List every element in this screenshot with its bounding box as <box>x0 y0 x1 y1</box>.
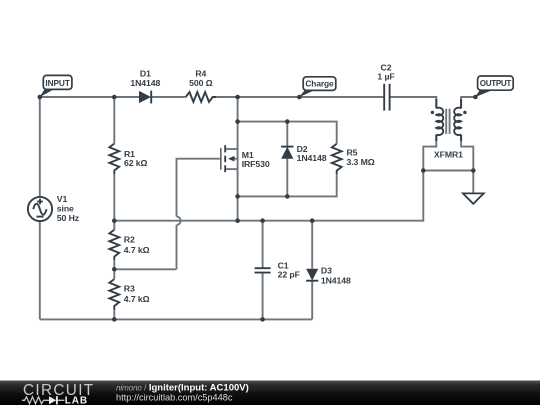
node junction source / D2 bottom rail <box>235 194 240 199</box>
wire: source vertical down to mid rail <box>237 149 239 221</box>
footer title line <box>116 383 249 394</box>
CircuitLab logo wordmark CIRCUIT <box>23 382 94 399</box>
wire: top rail from INPUT node to D1 <box>40 96 139 98</box>
node junction gate tap <box>112 267 117 272</box>
wire: transformer secondary top to OUTPUT node <box>461 97 475 108</box>
wire: C1 bottom lead <box>262 272 264 319</box>
svg-text:D3: D3 <box>321 266 332 276</box>
svg-text:3.3 MΩ: 3.3 MΩ <box>347 157 375 167</box>
svg-text:R2: R2 <box>124 235 135 245</box>
resistor R2 4.7 kOhm <box>109 230 149 261</box>
diode D2 1N4148 (vertical, pointing up) <box>281 144 327 163</box>
wire: C2 to transformer primary top <box>389 97 436 108</box>
resistor R5 3.3 MOhm <box>332 144 375 175</box>
node Charge <box>297 95 302 100</box>
wire: long mid rail y=220.7 to transformer <box>114 171 423 221</box>
svg-text:22 pF: 22 pF <box>278 270 300 280</box>
logo LAB text <box>65 396 88 405</box>
node junction xfmr tie left <box>421 168 426 173</box>
wire: drain stub <box>226 148 237 150</box>
node INPUT <box>38 95 43 100</box>
wire: transformer secondary bottom bracket <box>461 135 473 171</box>
flag Charge <box>299 77 336 97</box>
wire: V1 bottom to bottom rail <box>39 221 41 319</box>
wire: D2/R5 top rail <box>238 122 337 144</box>
diode D3 1N4148 (vertical, pointing down) <box>306 266 351 286</box>
wire: D2 bottom lead <box>286 159 288 197</box>
wire: R3 bottom to bottom rail <box>113 310 115 320</box>
wire: body stub <box>230 158 238 160</box>
ground <box>463 193 484 203</box>
capacitor C2 1 uF (vertical plates) <box>377 62 394 110</box>
node junction R3 bottom <box>112 317 117 322</box>
wire: R1 branch x=114.3 top <box>113 97 115 144</box>
svg-text:Charge: Charge <box>305 79 334 89</box>
svg-text:500 Ω: 500 Ω <box>189 78 213 88</box>
resistor R3 4.7 kOhm <box>109 279 149 310</box>
logo diode glyph <box>49 396 64 404</box>
svg-text:1 µF: 1 µF <box>377 72 394 82</box>
wire: bottom rail <box>40 318 312 320</box>
node junction source mid rail <box>235 218 240 223</box>
wire: mid rail R2 top stub <box>113 221 115 230</box>
node junction R1 top <box>112 95 117 100</box>
diode D1 1N4148 (horizontal, pointing right) <box>130 69 160 104</box>
svg-text:IRF530: IRF530 <box>242 159 270 169</box>
wire: left rail x=39.8 INPUT node down to V1 top <box>39 97 41 197</box>
node junction C1 top <box>260 218 265 223</box>
node junction drain top <box>235 95 240 100</box>
svg-text:http://circuitlab.com/c5p448c: http://circuitlab.com/c5p448c <box>116 393 233 403</box>
wire: source stub <box>226 168 237 170</box>
wire: D2 top lead <box>286 122 288 147</box>
svg-text:D1: D1 <box>140 69 151 79</box>
wire: drain vertical <box>237 97 239 149</box>
voltage source V1 sine 50 Hz <box>28 194 80 223</box>
wire: hop over mid rail <box>177 217 181 225</box>
footer url line <box>116 393 233 403</box>
flag INPUT <box>39 75 72 97</box>
footer bar <box>0 381 540 405</box>
resistor R4 500 Ohm (horizontal) <box>186 69 217 102</box>
node junction drain / D2 rail <box>235 119 240 124</box>
svg-text:4.7 kΩ: 4.7 kΩ <box>124 245 150 255</box>
svg-text:1N4148: 1N4148 <box>130 78 160 88</box>
wire: ground stem <box>472 171 474 194</box>
transformer XFMR1 <box>431 99 467 159</box>
node junction D3 top <box>310 218 315 223</box>
capacitor C1 22 pF (horizontal plates) <box>255 261 300 280</box>
flag OUTPUT <box>475 76 513 97</box>
wire: gate riser upper part and gate lead <box>177 159 220 217</box>
svg-text:XFMR1: XFMR1 <box>434 149 463 159</box>
node OUTPUT <box>473 95 478 100</box>
wire: transformer primary bottom bracket <box>423 135 436 171</box>
node junction xfmr tie right <box>471 168 476 173</box>
svg-text:LAB: LAB <box>65 396 88 405</box>
svg-text:INPUT: INPUT <box>45 78 69 88</box>
logo resistor glyph <box>22 397 49 404</box>
svg-text:R4: R4 <box>195 69 206 79</box>
svg-text:62 kΩ: 62 kΩ <box>124 158 148 168</box>
svg-text:V1: V1 <box>57 194 68 204</box>
MOSFET M1 IRF530 <box>221 145 270 172</box>
wire: R2 bottom to tap <box>113 260 115 269</box>
resistor R1 62 kOhm <box>109 144 147 175</box>
wire: C1 top lead <box>262 221 264 269</box>
wire: tap to R3 top <box>113 269 115 279</box>
svg-text:1N4148: 1N4148 <box>297 153 327 163</box>
node junction D2 top <box>285 119 290 124</box>
wire: gate tap horizontal y=269.3 <box>114 268 176 270</box>
wire: R4 to drain node and Charge node to C2 <box>216 96 384 98</box>
wire: D3 bottom lead <box>311 281 313 320</box>
wire: gate riser lower part <box>176 225 178 269</box>
node junction C1 bottom <box>260 317 265 322</box>
svg-text:1N4148: 1N4148 <box>321 275 351 285</box>
node junction D2 bottom <box>285 194 290 199</box>
svg-text:R3: R3 <box>124 284 135 294</box>
svg-text:OUTPUT: OUTPUT <box>480 79 512 88</box>
svg-text:50 Hz: 50 Hz <box>57 213 80 223</box>
wire: R1 bottom to mid rail <box>113 174 115 221</box>
node junction R1/R2 mid rail <box>112 218 117 223</box>
wire: D1 cathode to R4 <box>151 96 186 98</box>
wire: D2/R5 bottom rail <box>238 174 337 196</box>
wire: transformer bottom tie <box>423 170 473 172</box>
svg-text:4.7 kΩ: 4.7 kΩ <box>124 294 150 304</box>
wire: D3 top lead <box>311 221 313 269</box>
